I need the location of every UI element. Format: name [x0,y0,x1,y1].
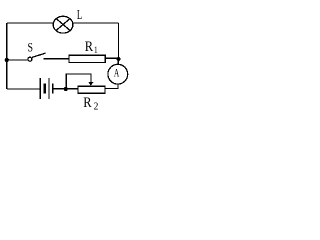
junction dot on left wire (switch branch) [5,58,9,62]
wiper arm of rheostat R2 [66,74,91,89]
svg-text:L: L [77,7,82,23]
wire junction to R2 [66,88,78,90]
wire switch to R1 [43,58,69,60]
wire top-right segment [73,22,119,24]
wire left vertical [6,23,8,89]
svg-text:S: S [28,41,33,55]
junction dot at wiper branch [64,87,68,91]
junction dot at node (R1 / lamp / ammeter) [116,57,120,61]
arrowhead of wiper [88,82,93,86]
wire R1 to node [105,57,118,59]
wire node to ammeter top [117,59,119,65]
svg-text:1: 1 [94,44,98,55]
ammeter U1 [108,64,128,84]
svg-text:R: R [85,38,93,54]
switch S [28,53,46,61]
wire bottom-left segment to battery [7,88,40,90]
battery B1 [40,78,53,99]
lamp L [53,16,73,33]
svg-text:A: A [114,67,120,80]
wire right vertical from top corner to node [117,23,119,59]
resistor R1 [69,55,105,62]
svg-text:R: R [83,94,91,110]
resistor R2 [78,86,105,93]
svg-text:2: 2 [94,101,99,112]
wire ammeter bottom to R2 [105,84,118,88]
wire battery to R2 junction [54,88,66,90]
wire switch-row left segment [7,59,28,61]
wire top-left segment [7,22,54,24]
